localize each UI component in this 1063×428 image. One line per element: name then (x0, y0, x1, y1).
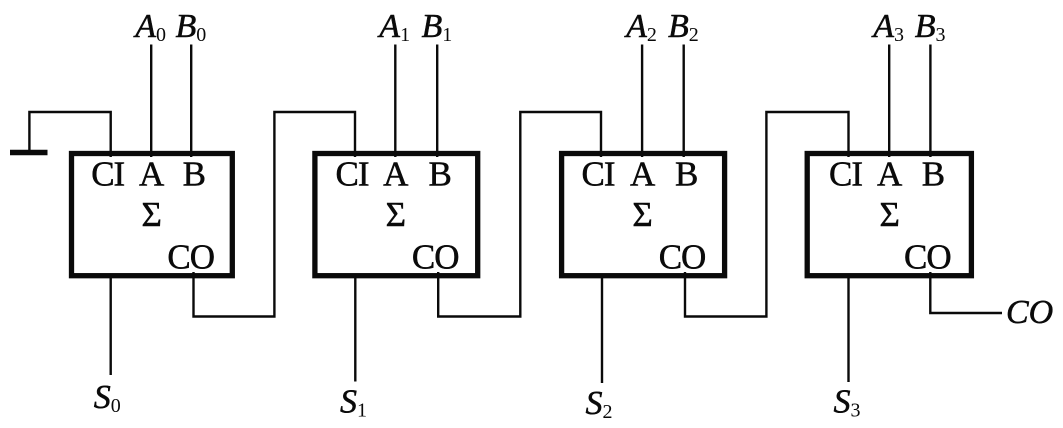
svg-text:A: A (630, 155, 656, 194)
svg-text:CI: CI (336, 155, 369, 194)
wire output CO of U4 (930, 272, 1002, 313)
wire input A3 (888, 45, 890, 158)
wire carry CO of U1 to CI of U2 (194, 112, 356, 317)
wire output S0 (109, 274, 111, 375)
wire input B3 (929, 45, 931, 158)
full adder U2 (315, 154, 478, 276)
svg-text:A: A (877, 155, 903, 194)
svg-text:B: B (183, 155, 205, 194)
wire carry CO of U3 to CI of U4 (685, 112, 849, 317)
wire input B1 (436, 45, 438, 158)
svg-text:A: A (383, 155, 409, 194)
wire output S2 (601, 274, 603, 383)
svg-text:A: A (139, 155, 165, 194)
svg-text:Σ: Σ (142, 195, 161, 234)
svg-text:Σ: Σ (880, 195, 899, 234)
svg-text:CO: CO (412, 238, 459, 277)
svg-text:CO: CO (659, 238, 706, 277)
ground (10, 150, 48, 156)
wire input B2 (683, 45, 685, 158)
svg-text:CI: CI (91, 155, 124, 194)
svg-text:CI: CI (582, 155, 615, 194)
wire carry CO of U2 to CI of U3 (438, 112, 601, 317)
svg-text:CI: CI (829, 155, 862, 194)
full adder U4 (807, 154, 971, 276)
wire input A2 (641, 45, 643, 158)
wire ground to CI of U1 (29, 112, 110, 157)
wire output S3 (847, 274, 849, 382)
wire input A0 (150, 45, 152, 158)
svg-text:Σ: Σ (632, 195, 651, 234)
svg-text:B: B (922, 155, 944, 194)
svg-text:B: B (429, 155, 451, 194)
svg-text:CO: CO (904, 238, 951, 277)
wire output S1 (354, 274, 356, 382)
wire input B0 (190, 45, 192, 158)
svg-text:Σ: Σ (386, 195, 405, 234)
wire input A1 (394, 45, 396, 158)
svg-text:CO: CO (167, 238, 214, 277)
full adder U1 (72, 154, 233, 276)
svg-text:CO: CO (1006, 294, 1053, 331)
full adder U3 (562, 154, 725, 276)
svg-text:B: B (675, 155, 697, 194)
